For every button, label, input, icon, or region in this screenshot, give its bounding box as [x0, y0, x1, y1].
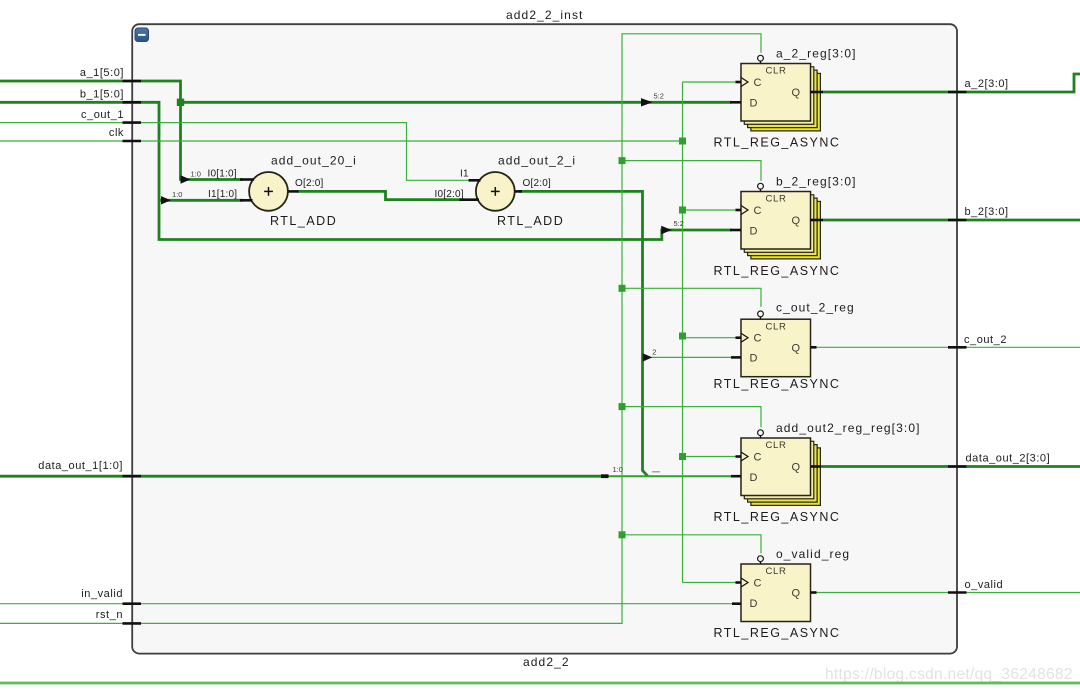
pin stub O add_out_20_i [289, 190, 299, 193]
svg-text:I1[1:0]: I1[1:0] [208, 189, 237, 200]
wire rst_n branch to o_valid_reg CLR [622, 535, 761, 554]
merge dash near concat [652, 471, 660, 473]
svg-text:C: C [754, 205, 762, 217]
svg-text:1:0: 1:0 [613, 465, 623, 474]
wire clk branch to a_2_reg C [683, 81, 738, 83]
wire add_out_2_i output O down trunk [519, 191, 648, 476]
svg-text:Q: Q [792, 343, 801, 355]
svg-text:b_2_reg[3:0]: b_2_reg[3:0] [776, 175, 857, 189]
wire in_valid to o_valid_reg D [0, 603, 733, 605]
pin stub Q o_valid_reg [811, 591, 817, 594]
svg-text:RTL_ADD: RTL_ADD [270, 214, 337, 228]
wire a_2 output to right edge [823, 74, 1080, 92]
pin stub Q add_out2_reg_reg [811, 465, 822, 468]
pin stub C a_2_reg [736, 81, 742, 84]
pin stub C o_valid_reg [736, 581, 742, 584]
port ticks left border [123, 81, 967, 623]
register b_2_reg[3:0] (stacked) [741, 183, 820, 259]
register a_2_reg[3:0] (stacked) [741, 55, 820, 131]
pin stub D o_valid_reg [732, 602, 741, 605]
svg-text:RTL_REG_ASYNC: RTL_REG_ASYNC [714, 136, 841, 150]
arrow 5:2 into b_2_reg D [661, 226, 672, 234]
pin stub D a_2_reg [730, 101, 741, 104]
svg-text:I1: I1 [460, 169, 469, 180]
wire data_out_1 bus from port [0, 475, 606, 478]
svg-text:add2_2: add2_2 [523, 655, 570, 669]
pin stub I0 add_out_2_i [460, 198, 480, 201]
svg-text:rst_n: rst_n [96, 609, 123, 621]
svg-text:5:2: 5:2 [674, 219, 684, 228]
svg-text:o_valid_reg: o_valid_reg [776, 547, 850, 561]
junction rst_n at o_valid_reg branch [619, 531, 626, 538]
svg-text:add_out2_reg_reg[3:0]: add_out2_reg_reg[3:0] [776, 421, 921, 435]
tick b_2 [948, 219, 967, 222]
svg-text:CLR: CLR [766, 66, 787, 77]
wire b_1 from port down [0, 102, 732, 239]
svg-text:2: 2 [652, 348, 656, 357]
svg-text:Q: Q [792, 87, 801, 99]
tick a_2 [948, 91, 967, 94]
svg-text:RTL_ADD: RTL_ADD [497, 214, 564, 228]
svg-text:c_out_1: c_out_1 [81, 109, 124, 121]
svg-text:a_1[5:0]: a_1[5:0] [80, 67, 124, 79]
wire slice 2 to c_out_2_reg D [644, 356, 733, 358]
arrow 5:2 into a_2_reg D [641, 98, 653, 106]
svg-text:C: C [754, 451, 762, 463]
wire rst_n branch to c_out_2_reg CLR [622, 288, 761, 307]
svg-text:Q: Q [792, 215, 801, 227]
svg-text:Q: Q [792, 462, 801, 474]
pin stub Q c_out_2_reg [811, 346, 817, 349]
svg-text:D: D [750, 472, 758, 484]
svg-text:C: C [754, 77, 762, 89]
junction rst_n at b_2_reg branch [619, 157, 626, 164]
wire clk from port to trunk [0, 140, 683, 142]
wire a_1 slice 5:2 to a_2_reg D [181, 101, 732, 104]
wire clk branch to o_valid_reg C [683, 582, 738, 584]
svg-text:O[2:0]: O[2:0] [523, 178, 551, 189]
svg-text:D: D [750, 598, 758, 610]
tick data_out_2 [948, 465, 967, 468]
wire add_out_20_i output O to add_out_2_i I0 [297, 191, 461, 199]
junction rst_n at c_out_2_reg branch [619, 285, 626, 292]
wire concat data_out_1 to add_out2_reg_reg D [606, 475, 732, 477]
tick c_out_1 [123, 121, 142, 124]
wire b_1 branch to I1 of add_out_20_i [160, 199, 243, 202]
wire rst_n branch to add_out2_reg_reg CLR [622, 407, 761, 428]
svg-text:C: C [754, 333, 762, 345]
pin stub I1 add_out_20_i [240, 199, 253, 202]
pin stub D add_out2_reg_reg [731, 475, 741, 478]
svg-text:D: D [750, 353, 758, 365]
tick b_1 [123, 101, 142, 104]
svg-text:a_2[3:0]: a_2[3:0] [965, 78, 1009, 90]
svg-text:C: C [754, 577, 762, 589]
op-amp adder add_out_2_i [476, 172, 515, 211]
svg-text:add_out_2_i: add_out_2_i [498, 154, 576, 168]
register add_out2_reg_reg[3:0] (stacked) [741, 430, 820, 506]
wire a_1 horizontal from port [0, 81, 243, 180]
wire rst_n branch to b_2_reg CLR [622, 161, 761, 181]
pin stub I1 add_out_2_i [469, 179, 481, 182]
arrow 1:0 into I0 [181, 175, 191, 183]
wire clk branch to b_2_reg C [683, 209, 738, 211]
tick rst_n [123, 622, 142, 625]
wire rst_n from port to trunk [0, 34, 761, 624]
collapse button [135, 28, 149, 42]
svg-text:c_out_2_reg: c_out_2_reg [776, 301, 855, 315]
tick a_1 [123, 80, 142, 83]
svg-text:CLR: CLR [766, 440, 787, 451]
pin stub Q a_2_reg [811, 91, 824, 94]
svg-text:O[2:0]: O[2:0] [295, 178, 323, 189]
svg-text:in_valid: in_valid [81, 588, 123, 600]
svg-text:RTL_REG_ASYNC: RTL_REG_ASYNC [714, 264, 841, 278]
wire c_out_1 to I1 of add_out_2_i [0, 123, 470, 181]
wire clk trunk vertical [682, 82, 684, 583]
wire o_valid output to right edge [816, 592, 1080, 594]
pin stub D b_2_reg [730, 229, 741, 232]
register c_out_2_reg [741, 311, 811, 377]
pin stub C add_out2_reg_reg [736, 455, 742, 458]
module container add2_2_inst [132, 24, 957, 653]
svg-text:b_2[3:0]: b_2[3:0] [965, 206, 1009, 218]
junction clk at c_out_2_reg C [679, 333, 686, 340]
bus slice arrowheads [161, 98, 672, 362]
svg-text:CLR: CLR [766, 194, 787, 205]
pin stub D c_out_2_reg [731, 356, 741, 359]
junction clk at add_out2_reg_reg C [679, 453, 686, 460]
svg-text:D: D [750, 225, 758, 237]
svg-text:add2_2_inst: add2_2_inst [506, 8, 584, 22]
wire c_out_2 output to right edge [816, 346, 1080, 348]
slice marker on data_out_1 wire [601, 474, 609, 478]
wire clk branch to add_out2_reg_reg C [683, 456, 738, 458]
svg-text:I0[1:0]: I0[1:0] [208, 169, 237, 180]
tick clk [123, 140, 142, 143]
arrow 2 into c_out_2_reg D [643, 353, 653, 361]
pin stub C b_2_reg [736, 209, 742, 212]
svg-text:a_2_reg[3:0]: a_2_reg[3:0] [776, 47, 857, 61]
tick in_valid [123, 602, 142, 605]
wire data_out_2 output to right edge [821, 465, 1080, 468]
tick c_out_2 [948, 346, 967, 349]
svg-text:Q: Q [792, 588, 801, 600]
junction clk at port row [679, 138, 686, 145]
svg-text:data_out_2[3:0]: data_out_2[3:0] [966, 453, 1051, 465]
svg-text:RTL_REG_ASYNC: RTL_REG_ASYNC [714, 510, 841, 524]
bottom green line [0, 682, 1080, 685]
svg-text:b_1[5:0]: b_1[5:0] [80, 89, 124, 101]
svg-text:CLR: CLR [766, 566, 787, 577]
pin stub O add_out_2_i [515, 190, 522, 193]
svg-text:o_valid: o_valid [965, 579, 1004, 591]
svg-text:CLR: CLR [766, 321, 787, 332]
arrow 1:0 into I1 [161, 196, 171, 204]
wire clk branch to c_out_2_reg C [683, 337, 738, 339]
pin stub C c_out_2_reg [736, 336, 742, 339]
tick o_valid [948, 591, 967, 594]
register o_valid_reg [741, 556, 811, 622]
svg-text:clk: clk [109, 127, 124, 139]
svg-text:data_out_1[1:0]: data_out_1[1:0] [38, 460, 123, 472]
svg-text:D: D [750, 97, 758, 109]
svg-text:RTL_REG_ASYNC: RTL_REG_ASYNC [714, 626, 841, 640]
junction rst_n at add_out2_reg_reg branch [619, 403, 626, 410]
junction clk at b_2_reg C [679, 207, 686, 214]
op-amp adder add_out_20_i [249, 172, 288, 211]
wire b_2 output to right edge [823, 219, 1080, 222]
junction a_1 at slice split [177, 99, 184, 106]
svg-text:5:2: 5:2 [654, 91, 664, 100]
svg-text:https://blog.csdn.net/qq_36248: https://blog.csdn.net/qq_36248682 [825, 666, 1073, 683]
svg-text:c_out_2: c_out_2 [964, 334, 1007, 346]
tick data_out_1 [123, 475, 142, 478]
pin stub Q b_2_reg [811, 219, 824, 222]
svg-text:RTL_REG_ASYNC: RTL_REG_ASYNC [714, 377, 841, 391]
svg-text:add_out_20_i: add_out_20_i [271, 154, 357, 168]
svg-text:1:0: 1:0 [172, 190, 182, 199]
svg-text:I0[2:0]: I0[2:0] [435, 189, 464, 200]
svg-text:1:0: 1:0 [191, 170, 201, 179]
pin stub I0 add_out_20_i [240, 178, 254, 181]
pin stubs (black) [240, 82, 823, 604]
